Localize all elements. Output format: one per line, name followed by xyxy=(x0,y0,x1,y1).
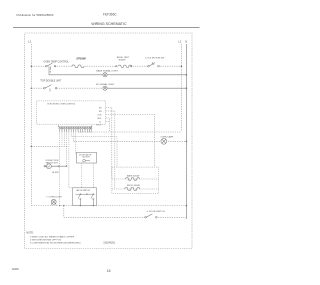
svg-text:2700W: 2700W xyxy=(76,56,86,60)
indicator lamp bake signal (row B) xyxy=(103,73,107,77)
node dot L1 branch xyxy=(31,146,33,148)
svg-text:L1: L1 xyxy=(28,39,32,43)
svg-text:WIRING SCHEMATIC: WIRING SCHEMATIC xyxy=(91,22,127,26)
svg-text:✶ DOOR SWITCH: ✶ DOOR SWITCH xyxy=(147,210,166,213)
wire harness v4 to fan motor xyxy=(66,129,68,166)
svg-text:N: N xyxy=(185,39,187,43)
svg-text:M: M xyxy=(48,164,50,168)
svg-text:NOTE:: NOTE: xyxy=(26,232,34,235)
wire U1 pin5 xyxy=(106,121,110,123)
switch S1 oven temp (row A) xyxy=(46,63,56,70)
switch S2 lock switch (row A) xyxy=(148,62,160,67)
latch switch contact 2 xyxy=(91,194,94,205)
heating element BROIL 3000W (row A) xyxy=(116,65,132,67)
oven lamp wire xyxy=(74,140,187,142)
wire L2 bus xyxy=(180,44,182,131)
node dot row C at N xyxy=(186,87,188,89)
wire row C L1 to N xyxy=(31,87,105,89)
svg-text:18: 18 xyxy=(107,269,111,273)
wire harness v7 to oven lamp line xyxy=(73,129,75,141)
svg-text:BROIL 3400W: BROIL 3400W xyxy=(127,185,140,187)
svg-text:Publication for 5995A08503: Publication for 5995A08503 xyxy=(17,13,54,17)
svg-text:OVEN LAMP: OVEN LAMP xyxy=(161,135,174,138)
wire door switch branch xyxy=(64,206,187,218)
wire U1 pin2 to broil element xyxy=(106,111,115,189)
wire U1 pin1 to bake element xyxy=(106,108,112,180)
wire harness v8 to latch motor box xyxy=(75,129,78,154)
wire row B to N xyxy=(49,74,186,76)
connector P1 pin ticks xyxy=(60,129,91,133)
svg-text:DLB: DLB xyxy=(98,114,103,116)
node dot row B at N xyxy=(186,74,188,76)
node dot row C at L1 xyxy=(31,87,33,89)
header rule xyxy=(13,26,200,28)
latch motor symbol xyxy=(83,159,86,162)
wire harness v1 long to bottom run xyxy=(59,129,61,205)
svg-text:3 COMPONENTS AT ROOM TEMP (DE: 3 COMPONENTS AT ROOM TEMP (DE-ENERGIZED) xyxy=(30,242,81,245)
wire U1 pin3 to oven box xyxy=(106,115,155,168)
svg-text:MOTOR: MOTOR xyxy=(83,157,91,159)
svg-text:2 SWITCHES SHOWN OFF POS: 2 SWITCHES SHOWN OFF POS xyxy=(30,240,62,242)
wire row A L1 to L2 xyxy=(31,65,181,67)
wire harness v9 to L2 tail xyxy=(77,129,79,132)
wire harness v2 xyxy=(61,129,63,146)
svg-text:E306: E306 xyxy=(12,267,19,271)
svg-text:3000W: 3000W xyxy=(118,59,126,61)
control board U1 electronic oven control xyxy=(37,101,106,124)
svg-text:OVEN TEMP CONTROL: OVEN TEMP CONTROL xyxy=(44,61,70,63)
heating element BAKE 2700W (row A) xyxy=(72,65,84,68)
node dot row A at L2 xyxy=(181,65,183,67)
svg-text:LOCK MOTOR SW: LOCK MOTOR SW xyxy=(145,58,165,60)
svg-text:✶ OVEN LIGHT: ✶ OVEN LIGHT xyxy=(46,196,62,199)
connector P1 comb xyxy=(59,125,92,127)
wire harness stub v11 xyxy=(89,129,91,132)
broil element row xyxy=(112,188,159,190)
switch S3 top double unit (row C) xyxy=(44,85,57,92)
wire bottom run L1 to N xyxy=(31,205,186,207)
wire L2 tail across to plug xyxy=(78,131,181,133)
wire N bus xyxy=(185,44,187,219)
oven lamp xyxy=(161,138,167,144)
svg-text:L2: L2 xyxy=(178,39,182,43)
wire harness v5 to latch switch box xyxy=(69,129,73,188)
svg-text:FEF366C: FEF366C xyxy=(103,12,117,16)
latch switch contact 1 xyxy=(78,194,81,205)
wire L1 bus xyxy=(30,44,32,206)
wire L1 branch to harness xyxy=(31,145,68,147)
wire harness v6 to mid line xyxy=(71,129,117,167)
wire row B tap from row A xyxy=(48,66,50,75)
node dot row A at L1 xyxy=(31,65,33,67)
svg-text:BAKE SIGNAL LIGHT: BAKE SIGNAL LIGHT xyxy=(96,69,118,72)
svg-text:BAKE 2350W: BAKE 2350W xyxy=(127,174,139,177)
svg-text:PLUG: PLUG xyxy=(96,124,102,126)
latch switch internal wire xyxy=(76,193,95,195)
wire latch motor to latch switch left xyxy=(81,163,83,188)
svg-text:1 WIRE CODE: ALL WIRING 18 AW: 1 WIRE CODE: ALL WIRING 18 AWG COPPER xyxy=(30,236,75,239)
svg-text:*TOP DOUBLE UNIT: *TOP DOUBLE UNIT xyxy=(40,81,62,83)
door latch motor box xyxy=(77,152,97,163)
door switch xyxy=(145,214,157,218)
svg-text:ELECTRONIC OVEN CONTROL: ELECTRONIC OVEN CONTROL xyxy=(48,104,76,106)
wire latch motor to latch switch right xyxy=(93,163,95,188)
outer chassis dashed box xyxy=(25,33,192,249)
latch switch box xyxy=(73,188,97,206)
indicator lamp surface signal (row C) xyxy=(103,86,107,90)
oven cavity dashed box xyxy=(112,167,159,193)
svg-text:SF SIGNAL LIGHT: SF SIGNAL LIGHT xyxy=(96,83,115,86)
wire harness v3 xyxy=(63,129,65,146)
svg-text:316246201: 316246201 xyxy=(103,241,116,244)
wire harness stub v10 xyxy=(84,129,86,132)
svg-text:HI-SPD: HI-SPD xyxy=(52,172,59,174)
bake element row xyxy=(112,178,159,180)
svg-text:LATCH SWITCH: LATCH SWITCH xyxy=(76,189,91,192)
wire U1 pin4 xyxy=(106,118,110,132)
